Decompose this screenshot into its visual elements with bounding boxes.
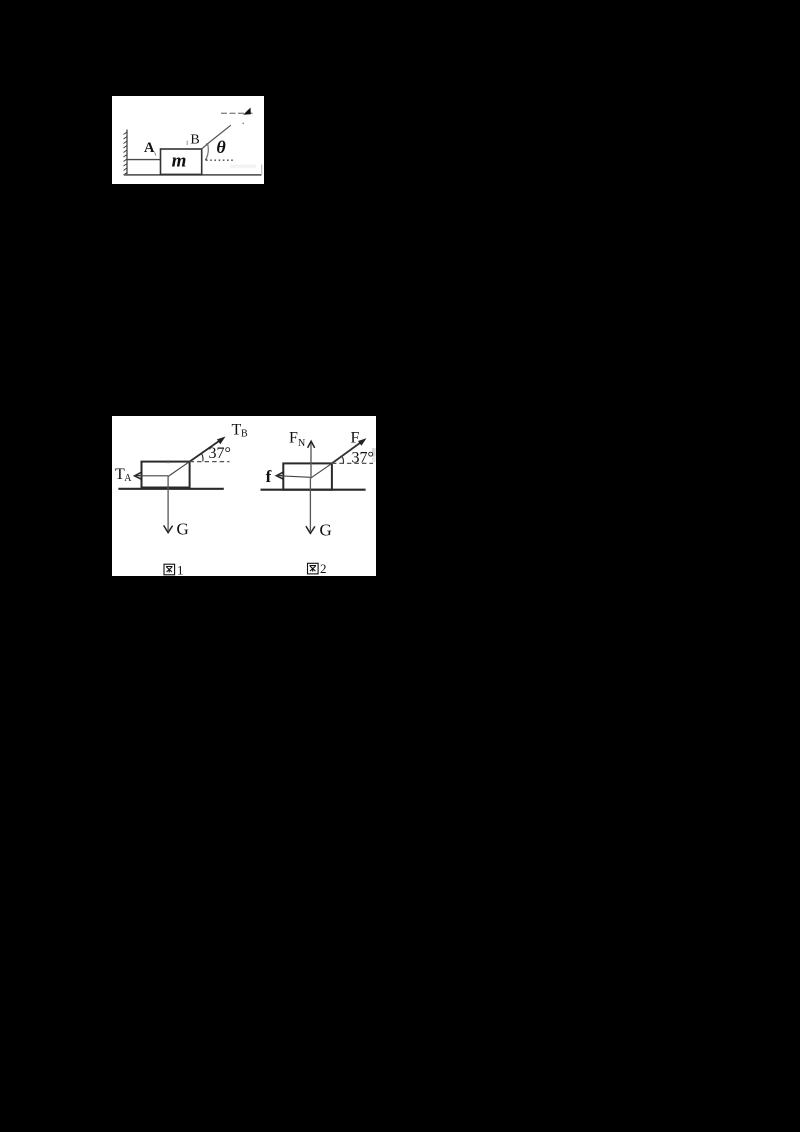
svg-text:A: A: [144, 139, 155, 155]
small dot artifact: [242, 122, 244, 124]
block 2: [283, 463, 332, 489]
svg-text:37°: 37°: [209, 445, 231, 462]
block top tick: [186, 140, 188, 144]
svg-text:N: N: [298, 438, 305, 449]
angle arc 2: [342, 457, 343, 463]
caption tu1: [164, 564, 175, 575]
dashed reference line 2: [332, 462, 373, 464]
rope B (block corner up-right): [202, 125, 231, 149]
ground line 1: [118, 488, 223, 490]
svg-text:θ: θ: [216, 137, 226, 157]
svg-text:f: f: [266, 467, 272, 486]
angle arc: [206, 143, 208, 159]
tension TB arrow: [190, 438, 223, 461]
svg-text:B: B: [241, 428, 248, 439]
small tail mark after A: [155, 152, 156, 155]
angle arc 1: [202, 454, 203, 462]
svg-text:F: F: [351, 430, 360, 447]
arc end dot: [205, 158, 207, 160]
svg-text:G: G: [177, 520, 189, 539]
block 1: [142, 462, 190, 488]
ground line 2: [261, 489, 366, 491]
block m: [161, 149, 202, 174]
svg-text:2: 2: [320, 561, 327, 576]
figure panel 2: two free-body diagrams: [112, 416, 376, 576]
gravity G arrow 2: [309, 478, 311, 531]
figure panel 1: block m on ground pulled by ropes A and B: [112, 96, 264, 185]
friction f arrow: [280, 476, 310, 478]
wall hatching: [124, 132, 128, 175]
svg-text:T: T: [232, 422, 242, 439]
gravity G arrow 1: [167, 477, 169, 531]
svg-text:m: m: [172, 150, 187, 171]
faint smudge band: [230, 164, 256, 167]
pull direction arrowhead: [243, 107, 251, 114]
diagonal from center to corner: [168, 462, 190, 477]
caption tu2: [308, 563, 319, 574]
tick above block top center: [167, 460, 169, 463]
kink dot on rope: [206, 143, 208, 145]
rope A (wall to block): [127, 158, 161, 160]
dashed reference line 1: [190, 461, 230, 463]
force F arrow: [332, 440, 364, 463]
ground right tick: [261, 164, 263, 175]
tension TA arrow: [139, 475, 169, 477]
pull direction dashed line: [221, 112, 255, 114]
ground line: [124, 173, 262, 175]
svg-text:1: 1: [177, 563, 184, 577]
svg-text:B: B: [190, 132, 199, 147]
dotted horizontal reference line: [206, 159, 235, 161]
svg-text:F: F: [289, 430, 298, 447]
svg-text:37°: 37°: [352, 450, 374, 467]
svg-text:A: A: [124, 473, 132, 484]
faint gray mark right of angle: [372, 448, 376, 456]
diagonal from center to corner 2: [310, 463, 332, 478]
svg-text:G: G: [320, 521, 332, 540]
normal force FN arrow: [310, 443, 312, 478]
wall: [126, 129, 128, 175]
